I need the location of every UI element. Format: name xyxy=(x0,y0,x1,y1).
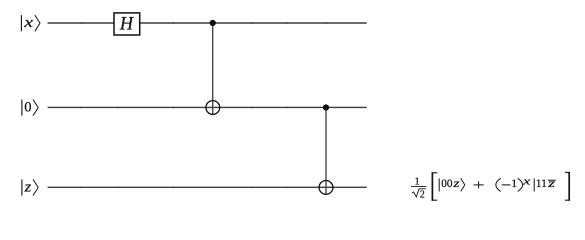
wire q2 (bottom qubit line) xyxy=(48,186,367,188)
svg-text:2: 2 xyxy=(420,189,425,200)
CNOT target X2 on q2 xyxy=(319,181,333,195)
wire joint ticks row q1 xyxy=(80,107,287,109)
control dot 2 on q1 xyxy=(323,104,329,110)
CNOT target X1 on q1 xyxy=(206,101,220,115)
formula ket bar of |11zbar> xyxy=(533,178,535,191)
wire joint ticks row q2 xyxy=(80,187,287,189)
svg-text:z: z xyxy=(452,178,460,190)
svg-text:x: x xyxy=(522,177,531,188)
formula overbar on z xyxy=(548,179,556,181)
wire q1 (middle qubit line) xyxy=(48,106,367,108)
svg-text:H: H xyxy=(119,14,135,34)
wire vertical control link 1 (q0 control to q1 target) xyxy=(212,23,214,115)
formula fraction bar xyxy=(411,185,427,187)
svg-text:0: 0 xyxy=(24,100,31,116)
svg-text:1: 1 xyxy=(511,178,517,190)
svg-text:z: z xyxy=(24,180,32,196)
wire joint ticks row q0 xyxy=(80,22,328,24)
formula big right square bracket xyxy=(565,172,570,201)
control dot 1 on q0 xyxy=(210,20,216,26)
label ket |x> on q0 xyxy=(21,15,40,31)
formula left paren of (-1)^x xyxy=(496,178,501,191)
gate H (Hadamard box on q0) xyxy=(114,13,140,35)
formula minus sign xyxy=(502,184,511,186)
wire vertical control link 2 (q1 control to q2 target) xyxy=(325,108,327,195)
svg-text:x: x xyxy=(23,15,34,31)
label ket |z> on q2 xyxy=(22,179,38,195)
formula angle bracket of |00z> xyxy=(461,178,465,191)
formula plus sign xyxy=(474,181,484,188)
formula radical sign of sqrt(2) xyxy=(412,189,426,197)
formula big left square bracket xyxy=(432,172,438,200)
svg-text:11: 11 xyxy=(536,178,547,190)
svg-text:00: 00 xyxy=(441,178,453,190)
svg-text:z: z xyxy=(547,178,556,190)
formula right paren of (-1)^x xyxy=(518,178,523,191)
label ket |0> on q1 xyxy=(22,100,38,116)
wire q0 (top qubit line) xyxy=(48,22,367,24)
formula ket bar of |00z> xyxy=(438,178,440,191)
